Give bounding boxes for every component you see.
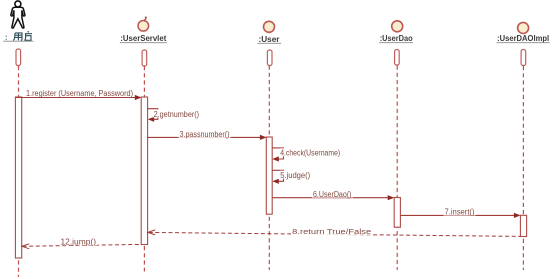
- svg-text::UserDAOImpl: :UserDAOImpl: [497, 33, 549, 43]
- activation main User: [266, 137, 272, 214]
- object UserDao label: [379, 33, 413, 43]
- message 8 label: [291, 227, 373, 236]
- svg-text:2.getnumber(): 2.getnumber(): [154, 110, 200, 119]
- svg-text::UserDao: :UserDao: [380, 33, 413, 43]
- object UserServlet control icon: [138, 17, 149, 31]
- activation main UserServlet: [141, 97, 147, 245]
- lifeline User: [268, 66, 270, 271]
- svg-text:7.insert(): 7.insert(): [445, 208, 475, 217]
- message 3 label: [179, 130, 231, 139]
- message 4 label: [280, 148, 342, 157]
- lifeline UserServlet: [143, 66, 145, 272]
- object User label: [257, 34, 281, 44]
- lifeline 用户: [18, 66, 20, 277]
- message 5 label: [280, 171, 312, 180]
- lifeline UserDAOImpl: [522, 66, 524, 270]
- activation top UserDao: [395, 50, 400, 66]
- message 1 label: [25, 89, 134, 98]
- svg-text:4.check(Username): 4.check(Username): [280, 149, 340, 158]
- activation top User: [267, 50, 272, 66]
- svg-text:8.return True/False: 8.return True/False: [292, 227, 371, 236]
- message 7 label: [444, 207, 476, 216]
- lifeline UserDao: [396, 66, 398, 271]
- message 2 self bracket: [148, 109, 158, 122]
- activation top 用户: [16, 49, 21, 66]
- svg-text::User: :User: [259, 34, 281, 44]
- message 1 register line: [15, 95, 141, 100]
- message 4 self bracket: [272, 148, 283, 162]
- message 7 insert line: [401, 213, 521, 218]
- activation main UserDao: [394, 198, 400, 228]
- actor 用户 label (drawn glyphs): [6, 32, 32, 41]
- activation main 用户: [15, 97, 21, 258]
- svg-text:5.judge(): 5.judge(): [280, 171, 310, 180]
- object UserDAOImpl icon: [518, 22, 529, 33]
- svg-text:12.jump(): 12.jump(): [61, 237, 97, 246]
- actor 用户 label underline: [3, 40, 33, 42]
- activation top UserDAOImpl: [521, 50, 526, 66]
- object UserServlet label: [120, 33, 167, 43]
- svg-text::UserServlet: :UserServlet: [120, 33, 166, 43]
- message 2 label: [153, 110, 200, 119]
- actor 用户 icon: [11, 1, 25, 28]
- svg-text:6.UserDao(): 6.UserDao(): [313, 190, 352, 199]
- object UserDao icon: [392, 21, 403, 32]
- message 12 label: [60, 237, 98, 246]
- message 8 return dashed line: [148, 230, 521, 237]
- activation main UserDAOImpl: [520, 215, 526, 236]
- activation top UserServlet: [142, 50, 147, 66]
- message 5 self bracket: [272, 170, 283, 184]
- message 12 jump dashed line: [22, 244, 141, 249]
- svg-text:3.passnumber(): 3.passnumber(): [180, 130, 230, 139]
- object User icon: [264, 21, 275, 32]
- message 6 label: [312, 189, 353, 198]
- svg-text:1.register (Username, Password: 1.register (Username, Password): [26, 89, 133, 98]
- message 6 UserDao line: [272, 195, 394, 200]
- message 3 passnumber line: [148, 135, 267, 140]
- object UserDAOImpl label: [497, 33, 550, 43]
